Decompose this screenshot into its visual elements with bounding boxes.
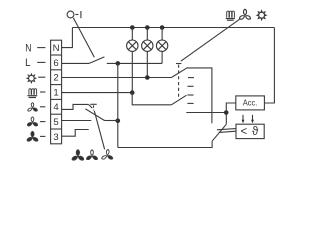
node D lamp1 junction: [130, 90, 135, 95]
wire terminal 1: [62, 92, 133, 94]
svg-text:1: 1: [53, 87, 58, 98]
thermostat box: [236, 124, 264, 138]
selector contact dash 2: [187, 85, 193, 87]
mechanical link S1: [73, 18, 94, 58]
Acc box: [236, 96, 265, 110]
selector pointer: [181, 19, 240, 61]
fan mode symbol: [239, 9, 251, 20]
wire terminal 2 to selector: [62, 77, 172, 79]
selector contact heat out: [187, 68, 212, 123]
lamp H1: [127, 28, 138, 52]
contact hook speed I: [88, 104, 92, 108]
svg-text:2: 2: [53, 73, 58, 84]
fan speed I symbol: [101, 149, 113, 160]
wire bottom run: [118, 141, 212, 147]
switch S1 symbol O-I: [67, 11, 81, 18]
selector contact dash 3: [187, 94, 193, 96]
wire lamp3 drop: [161, 51, 163, 63]
wire thermostat to Acc: [226, 103, 236, 124]
node C lamp2 junction: [145, 75, 150, 80]
wire lamp1 drop: [131, 51, 133, 92]
fan speed II symbol: [86, 150, 98, 161]
label dash heater: [40, 91, 45, 93]
node B fan feed: [116, 118, 121, 123]
node E thermostat: [224, 110, 229, 115]
speed actuator T: [90, 104, 96, 110]
heater mode symbol: [226, 11, 235, 20]
label dash sun: [38, 76, 45, 78]
speed selector blade: [85, 109, 104, 121]
sun mode symbol: [256, 9, 268, 21]
label dash N: [37, 47, 45, 49]
svg-text:L: L: [25, 57, 30, 69]
svg-text:ϑ: ϑ: [252, 126, 259, 138]
node bus-lamp2: [145, 25, 150, 30]
label dash fan4: [40, 106, 45, 108]
label dash fan3: [40, 135, 45, 137]
speed blade out: [105, 120, 118, 122]
svg-text:N: N: [25, 42, 31, 54]
terminal labels N 6 2 1 4 5 3: [53, 43, 60, 143]
capillary tube: [217, 129, 236, 133]
wire main drop: [117, 63, 119, 147]
svg-text:<: <: [240, 126, 247, 138]
wire N to top bus: [62, 28, 73, 48]
node bus-lamp3: [160, 25, 165, 30]
wire switched L: [107, 62, 162, 64]
svg-text:6: 6: [53, 58, 58, 69]
selector pole1 blade: [171, 68, 187, 78]
svg-text:3: 3: [53, 132, 58, 143]
node bus-lamp1: [130, 25, 135, 30]
wire heater feed elbow: [132, 93, 171, 105]
terminal block X1: [51, 40, 62, 144]
arrow 1: [242, 115, 245, 124]
wire L terminal 6: [62, 62, 90, 64]
top bus N: [72, 27, 274, 29]
selector pole2 blade: [171, 95, 186, 105]
lamp H2: [142, 28, 153, 52]
selector contact dash 1: [188, 77, 194, 79]
wire Acc to bus: [264, 28, 274, 104]
label dash fan5: [40, 121, 45, 123]
fan symbol speed III (terminal 3): [26, 132, 38, 142]
wire lamp2 drop: [146, 51, 148, 77]
switch S1 blade: [89, 57, 104, 64]
sun symbol (lamp terminal 2): [26, 73, 37, 84]
selector contact dash 4: [187, 102, 193, 104]
speed pointer: [94, 111, 104, 150]
svg-text:N: N: [53, 43, 60, 54]
wire terminal 5 contact: [62, 120, 92, 122]
selector contact bottom out: [186, 112, 226, 114]
thermostat blade: [212, 124, 226, 141]
selector actuator T: [176, 64, 181, 100]
fan speed III symbol: [71, 150, 84, 161]
fan symbol speed II (terminal 5): [27, 117, 38, 127]
svg-text:4: 4: [53, 102, 59, 113]
arrow 2: [251, 115, 254, 124]
svg-text:5: 5: [53, 117, 58, 128]
node A switched L: [116, 61, 121, 66]
wire terminal 3 step: [62, 130, 89, 137]
fan symbol speed I (terminal 4): [27, 103, 38, 112]
label dash L: [37, 61, 45, 63]
heater symbol (terminal 1): [27, 89, 37, 98]
wire terminal 4 step: [62, 104, 89, 109]
lamp H3: [156, 28, 167, 52]
svg-text:Acc.: Acc.: [243, 98, 258, 108]
